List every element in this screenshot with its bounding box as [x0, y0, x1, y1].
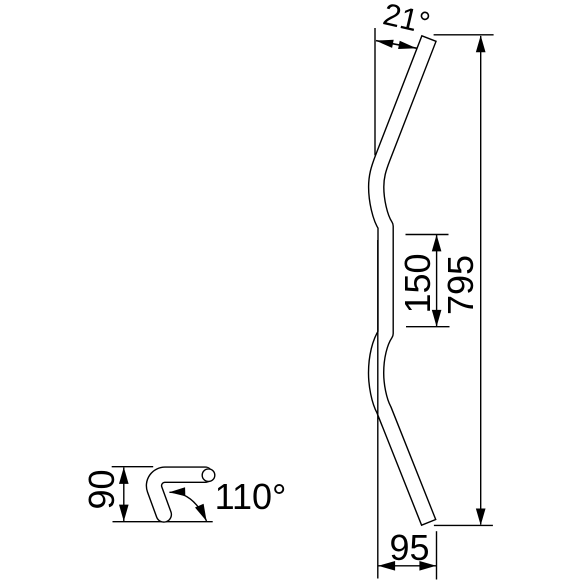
svg-text:95: 95: [389, 527, 429, 568]
95 left arrowhead: [378, 561, 395, 571]
svg-text:90: 90: [81, 469, 122, 509]
150 top arrowhead: [432, 235, 442, 252]
95 left extension line: [377, 240, 379, 579]
795 dimension line: [480, 36, 482, 525]
150 top extension tick: [406, 234, 449, 236]
21 deg right arrowhead: [398, 41, 416, 49]
795 top extension line: [434, 34, 494, 36]
110 deg lower arrowhead: [195, 504, 207, 522]
21 deg left arrowhead: [376, 40, 394, 48]
svg-text:795: 795: [440, 255, 481, 315]
elbow tube (side view, outline): [154, 475, 206, 515]
795 bottom arrowhead: [476, 509, 486, 526]
110 deg arc arrow: [169, 492, 206, 521]
svg-text:150: 150: [397, 253, 438, 313]
150 bottom extension tick: [406, 326, 450, 328]
90 bottom arrowhead: [119, 505, 129, 522]
95 right arrowhead: [419, 561, 436, 571]
elbow end opening circle: [202, 469, 215, 482]
150 bottom arrowhead: [432, 310, 442, 327]
90 dimension line: [123, 468, 125, 522]
21 deg dimension arrow shaft: [376, 41, 417, 49]
svg-text:110°: 110°: [215, 476, 287, 517]
110 deg upper-left arrowhead: [169, 487, 185, 496]
95 dimension arrow shaft: [378, 565, 436, 567]
95 right extension line: [436, 531, 438, 579]
795 bottom extension line: [434, 524, 493, 526]
795 top arrowhead: [476, 35, 486, 52]
90 top extension line: [112, 466, 154, 468]
90 top arrowhead: [119, 467, 129, 484]
handlebar tube (front view, outline): [376, 38, 429, 523]
vertical reference extension line for 21 deg: [374, 28, 376, 155]
90 bottom extension line (also 110 deg reference): [113, 521, 213, 523]
150 dimension line: [436, 235, 438, 326]
